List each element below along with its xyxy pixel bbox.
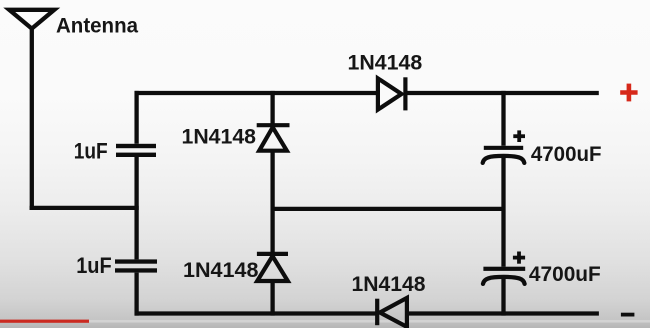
svg-text:1uF: 1uF — [74, 139, 108, 164]
svg-text:1N4148: 1N4148 — [183, 259, 259, 282]
svg-text:4700uF: 4700uF — [531, 143, 602, 166]
svg-text:1N4148: 1N4148 — [352, 273, 426, 296]
svg-text:1uF: 1uF — [76, 253, 112, 278]
svg-text:4700uF: 4700uF — [529, 263, 601, 286]
svg-text:1N4148: 1N4148 — [348, 52, 423, 75]
svg-text:Antenna: Antenna — [56, 14, 138, 37]
svg-text:1N4148: 1N4148 — [182, 126, 257, 149]
